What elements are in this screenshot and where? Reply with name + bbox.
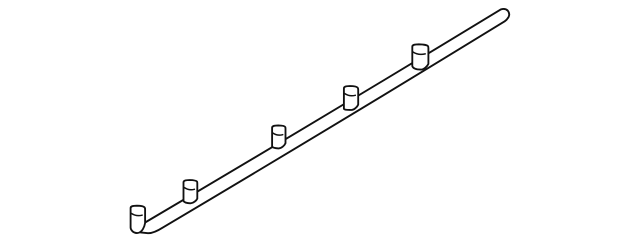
clip boss B1 (left end) [131,206,146,233]
wire : main strip outline (upper edge, tip cap, lower edge, foot bend) [141,9,510,233]
rim arc of boss B5 [413,52,425,54]
clip boss B4 [344,86,358,110]
clip boss B3 [272,125,285,148]
clip boss B5 [412,44,428,69]
rim arc of boss B1 [131,213,142,215]
rim arc of boss B3 [273,133,283,135]
clip boss B2 [184,180,198,203]
rim arc of boss B4 [345,94,356,96]
rim arc of boss B2 [184,188,194,190]
